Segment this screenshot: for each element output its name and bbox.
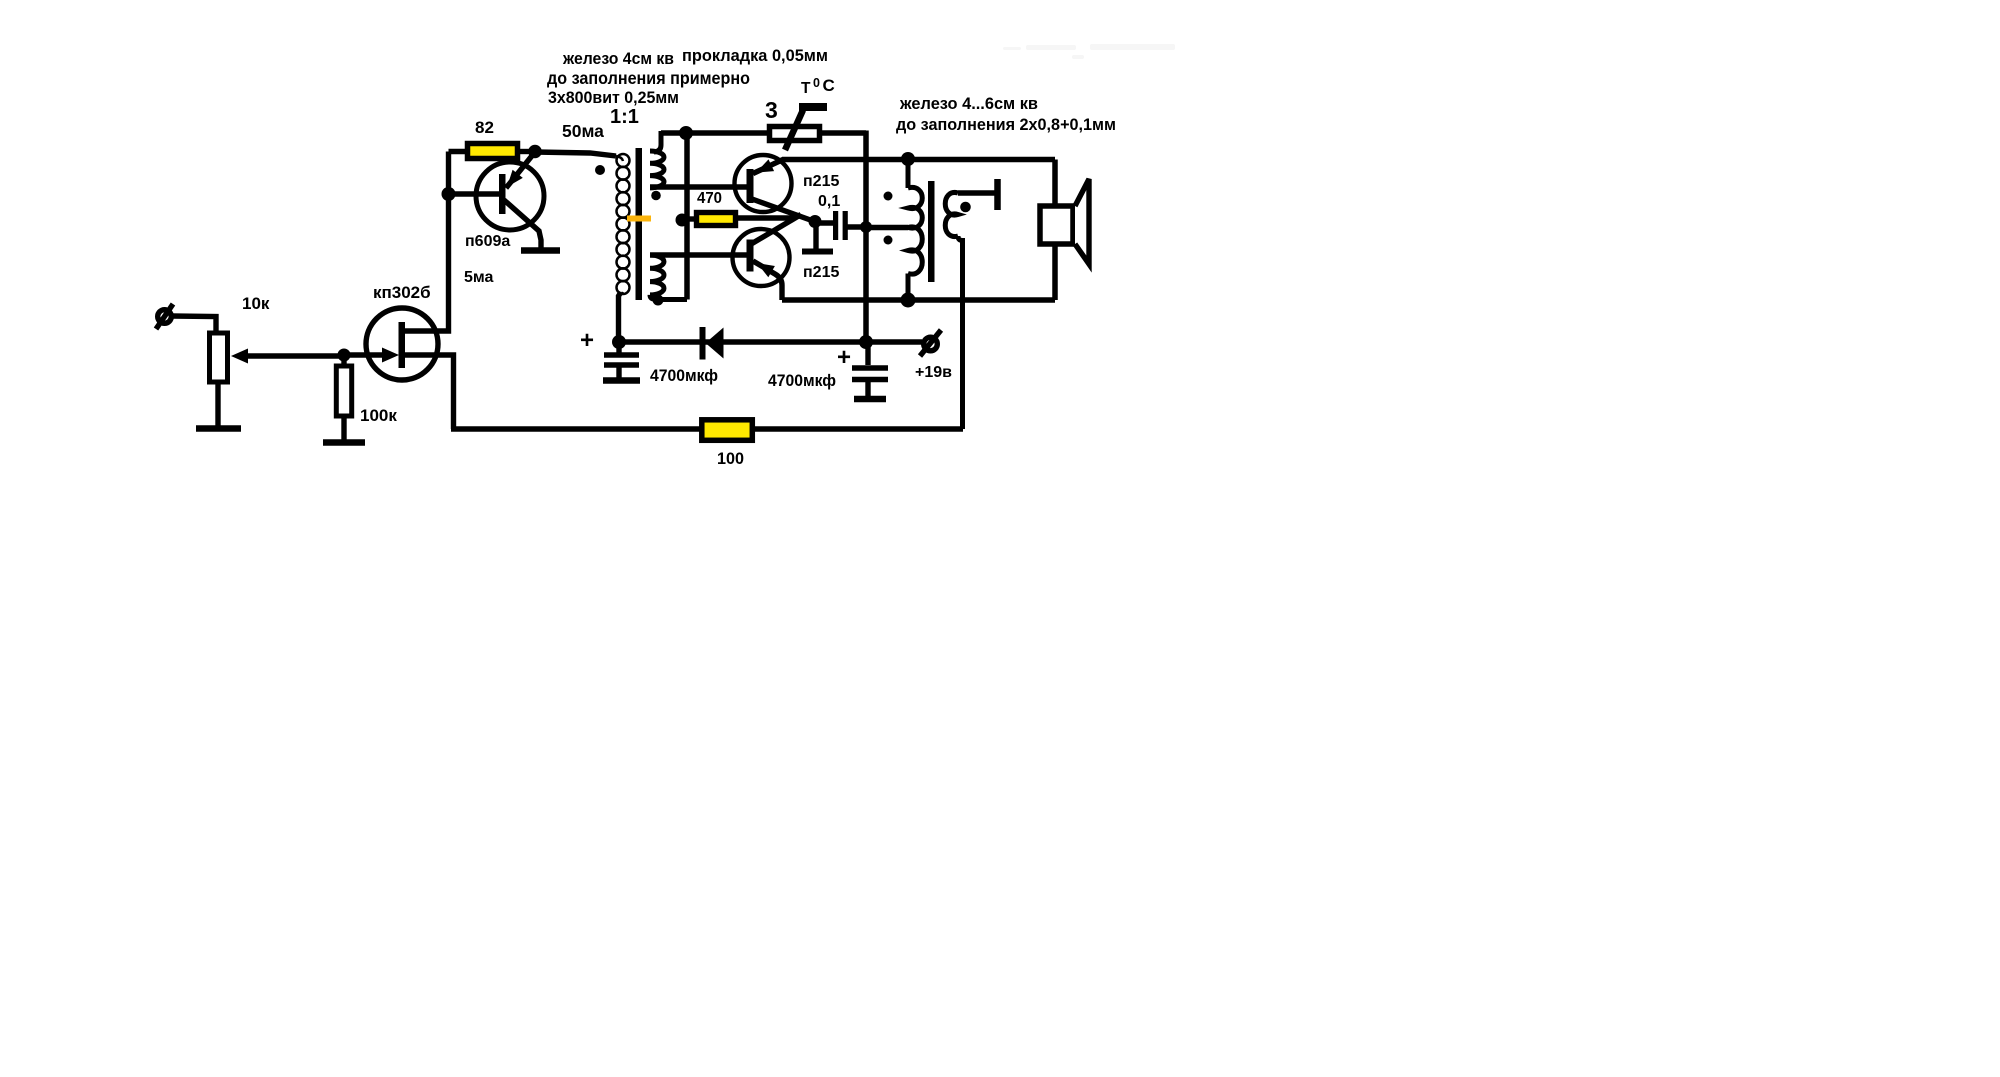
- node M junction dot (T2 primary top): [901, 152, 915, 166]
- transistor VT1 кп302б (FET): [366, 308, 438, 380]
- svg-text:до заполнения 2х0,8+0,1мм: до заполнения 2х0,8+0,1мм: [896, 115, 1116, 134]
- terminal bar below node I: [813, 221, 818, 249]
- T2 phase dot secondary: [960, 202, 971, 213]
- wire 82 right lead: [520, 149, 536, 154]
- right supply rail: [863, 131, 869, 343]
- node L junction dot (C1): [612, 335, 626, 349]
- potentiometer 10к body: [210, 333, 228, 382]
- wire T2 center tap: [866, 225, 908, 230]
- T2 phase dot lower: [884, 236, 893, 245]
- wire 82 left lead: [449, 149, 467, 154]
- node E junction dot (top): [679, 126, 693, 140]
- T1 phase dot secondary lower: [653, 295, 664, 306]
- T1 core gap mark (orange): [627, 216, 651, 222]
- svg-text:+19в: +19в: [915, 364, 952, 381]
- svg-text:п215: п215: [803, 264, 839, 281]
- speaker BA1: [1040, 179, 1089, 264]
- input jack J2 (+19в): [920, 330, 941, 356]
- wire node B to T1 primary: [535, 152, 616, 156]
- node K junction dot (+19в): [859, 335, 873, 349]
- svg-text:кп302б: кп302б: [373, 283, 431, 302]
- potentiometer wiper arrow: [231, 349, 248, 364]
- wire T1 sec top lead: [661, 130, 687, 135]
- svg-text:0: 0: [813, 76, 820, 90]
- wire supply node: [866, 339, 922, 344]
- transformer T2 primary upper: [908, 159, 922, 228]
- wire FET source down to bottom rail: [404, 355, 454, 429]
- transistor VT4 п215 (lower): [733, 215, 802, 301]
- transformer T2 primary lower: [908, 227, 922, 300]
- svg-text:4700мкф: 4700мкф: [768, 371, 836, 390]
- wire top rail T1 to thermistor: [686, 130, 768, 135]
- svg-text:3х800вит 0,25мм: 3х800вит 0,25мм: [548, 88, 679, 107]
- T2 secondary winding: [945, 192, 962, 429]
- node N junction dot (T2 primary bottom): [901, 293, 916, 308]
- wire node A to FET gate: [344, 352, 384, 357]
- T1 secondary upper winding: [650, 131, 664, 188]
- svg-text:железо 4...6см кв: железо 4...6см кв: [899, 94, 1038, 113]
- diode VD1: [700, 327, 724, 360]
- faint erased-text smudge: [1003, 44, 1175, 59]
- T1 secondary lower winding: [650, 255, 687, 300]
- svg-text:3: 3: [765, 97, 778, 123]
- svg-text:до заполнения примерно: до заполнения примерно: [547, 68, 750, 88]
- capacitor C2 4700мкф (right): [852, 342, 888, 396]
- potentiometer bottom lead: [215, 382, 220, 427]
- svg-text:+: +: [580, 327, 594, 354]
- capacitor C1 4700мкф (left): [604, 342, 639, 378]
- svg-text:50ма: 50ма: [562, 121, 604, 141]
- wire diode row: [619, 339, 866, 344]
- svg-text:п609а: п609а: [465, 233, 510, 250]
- ground (C2): [854, 396, 886, 403]
- ground (100к): [323, 439, 365, 446]
- svg-text:С: С: [823, 76, 835, 95]
- svg-text:100к: 100к: [360, 406, 397, 425]
- wire J1 to potentiometer: [171, 316, 216, 332]
- node F junction dot (470 tap): [676, 214, 689, 227]
- svg-text:0,1: 0,1: [818, 193, 840, 210]
- input jack J1: [156, 304, 173, 329]
- resistor 470: [697, 213, 736, 226]
- wire 470 right lead: [738, 215, 795, 220]
- resistor 82: [468, 144, 518, 159]
- terminal bar (T2 secondary): [994, 179, 1001, 210]
- svg-text:10к: 10к: [242, 294, 270, 313]
- wire speaker feed top: [1052, 160, 1058, 206]
- T2 phase dot upper: [884, 192, 893, 201]
- capacitor 0,1: [816, 211, 866, 240]
- ground (potentiometer): [196, 425, 241, 432]
- wire lower collector rail: [782, 297, 1055, 302]
- svg-text:Т: Т: [801, 80, 811, 97]
- node C junction dot (п609а base): [442, 187, 456, 201]
- wire speaker feed bottom: [1052, 246, 1058, 300]
- T1 core: [636, 148, 643, 300]
- node I junction dot (emitter join): [809, 215, 822, 228]
- svg-text:+: +: [837, 344, 851, 371]
- svg-text:прокладка 0,05мм: прокладка 0,05мм: [682, 46, 828, 65]
- wire 470 left lead: [687, 216, 696, 221]
- wire T2 secondary top lead: [958, 190, 997, 195]
- svg-text:п215: п215: [803, 173, 839, 190]
- svg-text:1:1: 1:1: [610, 106, 639, 128]
- svg-text:5ма: 5ма: [464, 269, 494, 286]
- T2 core: [928, 181, 935, 282]
- ground (C1): [603, 377, 640, 384]
- T1 phase dot primary: [595, 165, 605, 175]
- svg-text:100: 100: [717, 449, 744, 468]
- node A junction dot: [338, 349, 351, 362]
- bottom feedback wire: [451, 426, 963, 431]
- resistor 100 (bottom): [702, 420, 753, 441]
- svg-text:82: 82: [475, 118, 494, 137]
- T1 phase dot secondary upper: [651, 191, 661, 201]
- node J junction dot (0,1 cap / T2 tap): [860, 221, 872, 233]
- resistor 100к: [336, 355, 351, 441]
- transistor VT2 п609а: [476, 152, 544, 249]
- wire base of п609а: [449, 191, 501, 196]
- svg-text:железо 4см кв: железо 4см кв: [562, 49, 674, 68]
- T1 primary bottom lead: [619, 292, 622, 342]
- wire base line upper п215: [650, 184, 747, 189]
- T1 bias rail: [684, 133, 690, 300]
- wire FET drain up to 82 resistor: [404, 152, 449, 332]
- thermistor R5: [770, 107, 828, 150]
- svg-text:4700мкф: 4700мкф: [650, 366, 718, 385]
- svg-text:470: 470: [697, 190, 722, 207]
- transformer T1 primary winding: [616, 154, 630, 296]
- wire upper collector rail: [782, 157, 1055, 162]
- ground (п609а collector): [521, 247, 560, 254]
- wire wiper to node A: [244, 353, 345, 358]
- wire base line lower п215: [650, 252, 747, 257]
- transistor VT3 п215 (upper): [735, 155, 817, 222]
- FET gate arrow: [382, 348, 399, 363]
- node B junction dot (82 / emitter / T1): [528, 145, 542, 159]
- wire thermistor to right rail: [820, 130, 866, 135]
